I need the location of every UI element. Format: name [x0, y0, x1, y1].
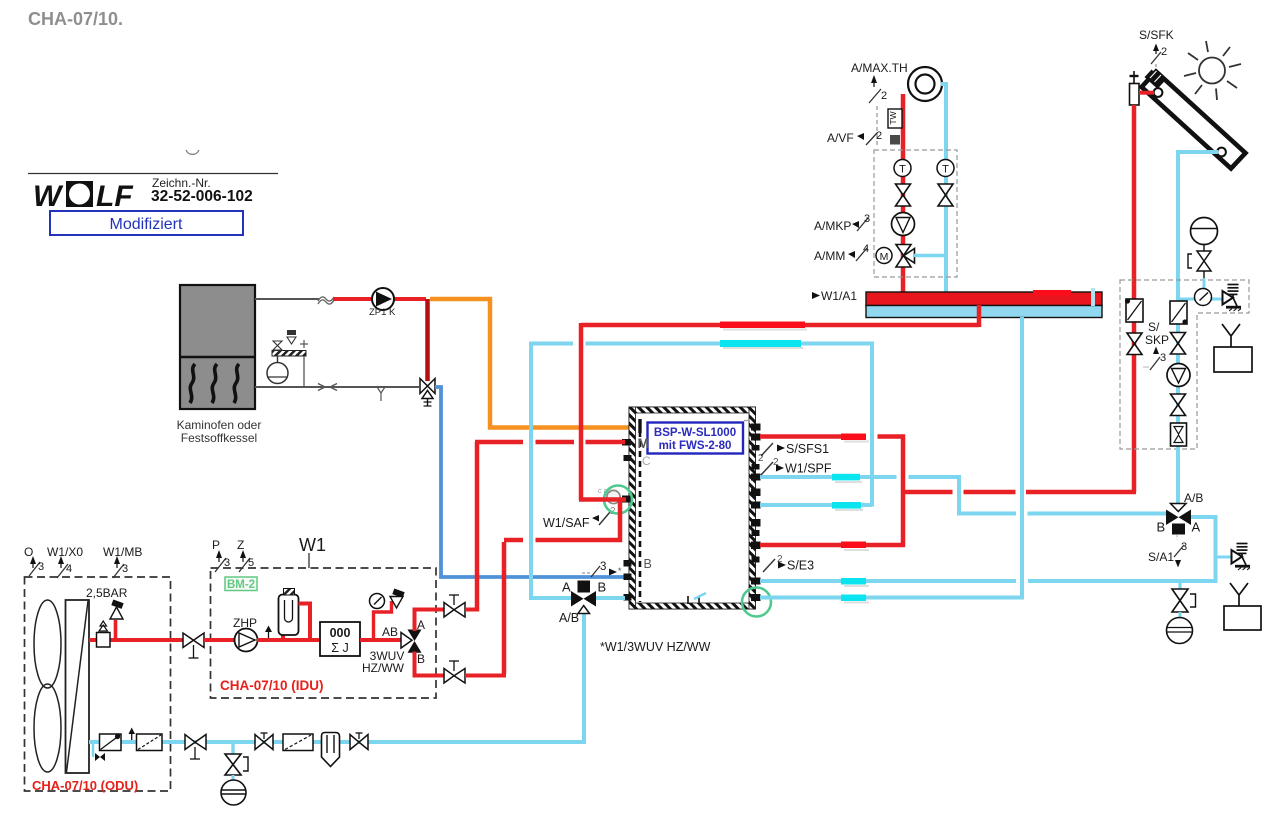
- wire red solar to tank: [902, 490, 1136, 495]
- svg-text:S/SFK: S/SFK: [1139, 28, 1174, 42]
- svg-text:ZP1 K: ZP1 K: [369, 307, 396, 318]
- manifold cyan bar: [866, 306, 1102, 318]
- wire ODU cyan return: [89, 740, 185, 744]
- dirt separator: [322, 733, 340, 767]
- svg-text:W1/SAF: W1/SAF: [543, 516, 590, 530]
- svg-text:CHA-07/10.: CHA-07/10.: [28, 9, 123, 29]
- green highlight circle SAF: [604, 486, 632, 514]
- svg-text:W1/X0: W1/X0: [47, 545, 83, 559]
- 3-way valve solar A/B: [1157, 491, 1204, 535]
- wire cyan mixer bypass: [914, 254, 946, 258]
- blow-off funnel vessel 2: [1224, 583, 1261, 630]
- valve solar return upper: [1171, 333, 1186, 355]
- wire cyan loop top: [531, 342, 872, 599]
- pipe break symbol: [318, 297, 334, 304]
- valve on return 1: [185, 735, 206, 760]
- svg-text:3: 3: [38, 561, 44, 573]
- gauge on solar return: [1178, 278, 1227, 306]
- wire red solar flow riser: [1132, 105, 1137, 492]
- wire red A1 riser: [901, 94, 906, 293]
- manifold red bar: [866, 292, 1102, 306]
- pump ZP1: [372, 288, 394, 310]
- boiler Kaminofen/Feststoffkessel: [180, 285, 255, 409]
- pump A/MKP: [892, 213, 915, 236]
- 3WUV HZ/WW valve: [362, 618, 425, 675]
- header rule: [28, 173, 278, 175]
- svg-text:A/B: A/B: [559, 611, 579, 625]
- blow-off funnel vessel 1: [1214, 324, 1252, 372]
- svg-text:A/MKP: A/MKP: [814, 219, 851, 233]
- TW limiter box: [888, 109, 902, 128]
- label W1/SAF: [543, 506, 616, 530]
- label S/SKP: [1143, 320, 1169, 370]
- BM-2 module: [225, 577, 257, 591]
- svg-text:mit FWS-2-80: mit FWS-2-80: [659, 440, 732, 452]
- wire red A out: [415, 610, 445, 632]
- svg-text:O: O: [24, 545, 33, 559]
- svg-text:CHA-07/10 (ODU): CHA-07/10 (ODU): [32, 778, 138, 793]
- check valve box with sensor dot: [100, 734, 122, 751]
- svg-text:2: 2: [1161, 46, 1167, 58]
- svg-text:HZ/WW: HZ/WW: [362, 661, 405, 675]
- red highlight dash: [723, 329, 807, 331]
- svg-text:B: B: [598, 580, 607, 595]
- wire boiler supply gray: [255, 298, 319, 300]
- tank left ports: [622, 439, 632, 601]
- expansion vessel solar: [1188, 218, 1218, 279]
- flow arrows on return: [318, 384, 325, 391]
- valve return: [938, 184, 953, 206]
- svg-text:S/A1: S/A1: [1148, 550, 1174, 564]
- check valve cartridge: [1171, 423, 1187, 446]
- svg-text:M: M: [638, 435, 650, 451]
- svg-text:32-52-006-102: 32-52-006-102: [151, 188, 253, 205]
- wire red manifold drop: [977, 305, 982, 327]
- sun: [1184, 41, 1241, 100]
- valve solar return lower: [1171, 394, 1186, 416]
- svg-text:P: P: [212, 538, 220, 552]
- red highlight dashes at tank: [844, 441, 869, 443]
- wire red WW riser link: [536, 501, 621, 540]
- air vent arrow: [129, 728, 136, 735]
- svg-text:2: 2: [876, 130, 882, 142]
- svg-text:W1/A1: W1/A1: [821, 289, 857, 303]
- svg-text:W1/MB: W1/MB: [103, 545, 142, 559]
- cyan highlight dash: [723, 347, 803, 349]
- svg-text:S/SFS1: S/SFS1: [786, 442, 829, 456]
- storage tank BSP-W-SL1000: [629, 407, 756, 609]
- wire cyan valve to tank bottom port: [595, 596, 625, 600]
- wire cyan to left AB valve: [531, 594, 572, 598]
- wire cyan tank to AB valve upper: [760, 475, 1166, 514]
- sensor label O: [24, 545, 44, 576]
- green highlight circle bottom: [742, 588, 771, 617]
- svg-text:*: *: [618, 566, 622, 576]
- wire red pump out: [257, 638, 284, 642]
- svg-text:Modifiziert: Modifiziert: [110, 216, 183, 233]
- thermometer T supply: [894, 160, 911, 177]
- tank right ports: [751, 424, 761, 602]
- valve on A line: [444, 595, 465, 617]
- label S/A1: [1148, 535, 1187, 568]
- heat exchanger: [66, 600, 90, 773]
- heat meter: [320, 622, 360, 656]
- label S/SFK: [1139, 28, 1174, 70]
- boiler mixing valve: [420, 379, 435, 407]
- wire red riser HZ supply: [475, 442, 480, 612]
- svg-text:4: 4: [863, 243, 869, 255]
- wire red drop to SAF port: [579, 323, 584, 500]
- wire orange boiler to tank: [430, 299, 630, 428]
- svg-text:3: 3: [224, 557, 230, 569]
- ODU dashed enclosure: [25, 577, 171, 791]
- solar station dashed enclosure: [1120, 280, 1249, 449]
- valve on B line: [444, 661, 465, 683]
- wire boiler return gray: [255, 386, 420, 388]
- wire boiler supply red: [333, 297, 426, 301]
- wire cyan A1 return riser: [941, 84, 946, 307]
- wire red to ZHP: [204, 638, 236, 642]
- svg-text:LF: LF: [96, 180, 133, 213]
- svg-text:C: C: [642, 454, 651, 468]
- flow indicator solar flow: [1125, 298, 1143, 322]
- svg-text:Festsoffkessel: Festsoffkessel: [181, 431, 257, 445]
- wire red collector stub: [1139, 91, 1154, 95]
- safety valve solar: [1223, 285, 1242, 312]
- svg-text:T: T: [942, 164, 949, 176]
- pale cyan stub at right end: [1091, 288, 1095, 306]
- tank bottom drain marks: [687, 596, 689, 604]
- wire cyan tank mid to AB loop: [760, 505, 1216, 581]
- svg-text:B: B: [644, 557, 652, 571]
- electric heater vessel: [279, 589, 323, 642]
- wire cyan manifold drop: [760, 317, 1022, 598]
- wire ODU red supply: [89, 638, 184, 642]
- wire dark red drop to mixing valve: [425, 299, 430, 381]
- sensor label P: [212, 538, 230, 572]
- wire red tank upper link: [760, 435, 905, 548]
- safety valve right branch: [1215, 544, 1250, 571]
- 3-way valve W1/3WUV HZ/WW: [559, 580, 606, 626]
- svg-text:T: T: [899, 164, 906, 176]
- tank inner dashed line: [639, 421, 642, 602]
- wire cyan collector return: [1178, 152, 1218, 300]
- WOLF logo: [33, 180, 133, 213]
- air vent on pipe: [265, 626, 272, 633]
- solar pump S/SKP: [1167, 364, 1190, 387]
- svg-text:SKP: SKP: [1145, 333, 1169, 347]
- flow indicator solar return: [1170, 301, 1188, 325]
- label W1/A1: [812, 289, 857, 303]
- svg-text:3: 3: [122, 563, 128, 575]
- union fitting at SAF port: [607, 490, 620, 503]
- svg-text:W: W: [33, 180, 64, 213]
- valve on return 3: [350, 735, 368, 750]
- svg-text:3: 3: [600, 561, 606, 573]
- label S/SFS1: [758, 442, 829, 464]
- decorative arc artifact: [186, 150, 199, 154]
- wire cyan station column: [1176, 296, 1180, 505]
- svg-text:A: A: [417, 618, 425, 632]
- label A/MAX.TH: [851, 61, 908, 148]
- svg-text:A/VF: A/VF: [827, 131, 854, 145]
- drain assembly with gauge: [221, 742, 248, 805]
- svg-text:A: A: [562, 580, 571, 595]
- svg-text:S/E3: S/E3: [787, 559, 814, 573]
- svg-text:Z: Z: [237, 538, 244, 552]
- svg-text:A/MM: A/MM: [814, 249, 845, 263]
- svg-text:2,5BAR: 2,5BAR: [86, 586, 128, 600]
- cyan highlight dashes right of tank: [844, 602, 869, 604]
- fan: [34, 600, 61, 688]
- filter box dashed: [137, 734, 163, 751]
- valve solar flow: [1127, 333, 1142, 355]
- svg-text:AB: AB: [382, 625, 398, 639]
- thermostat double circle: [908, 67, 942, 101]
- tank top right mark: [744, 420, 750, 422]
- svg-text:M: M: [880, 251, 889, 263]
- drain tee on return: [377, 387, 385, 393]
- air vent with cross: [1130, 71, 1140, 105]
- label W1/SPF: [761, 457, 832, 476]
- svg-text:A: A: [1192, 520, 1201, 535]
- svg-text:TW: TW: [888, 111, 898, 124]
- pump group dashed box: [874, 150, 957, 277]
- label A/MKP: [814, 213, 870, 233]
- svg-text:Σ J: Σ J: [331, 641, 348, 655]
- svg-text:000: 000: [330, 626, 351, 640]
- wire red B to riser: [465, 674, 506, 678]
- drain with vessel bottom right: [1167, 581, 1196, 644]
- wire red B out: [415, 652, 445, 676]
- svg-text:B: B: [1157, 520, 1166, 535]
- sensor label W1/X0: [47, 545, 83, 578]
- mixer A/MM: [876, 245, 915, 268]
- svg-text:W1: W1: [299, 535, 326, 555]
- safety valve 2,5bar: [110, 599, 124, 640]
- wire cyan heat pump return main: [185, 614, 584, 743]
- purge box: [97, 633, 111, 648]
- sensor marker 3 at tank left: [582, 561, 622, 577]
- svg-text:3: 3: [1160, 352, 1166, 364]
- svg-text:CHA-07/10 (IDU): CHA-07/10 (IDU): [220, 678, 324, 693]
- valve supply: [896, 184, 911, 206]
- svg-text:*W1/3WUV HZ/WW: *W1/3WUV HZ/WW: [600, 640, 711, 654]
- shutoff valve before IDU: [183, 633, 204, 658]
- svg-text:3: 3: [864, 213, 870, 225]
- svg-text:BSP-W-SL1000: BSP-W-SL1000: [654, 427, 736, 439]
- wire blue boiler return to tank: [435, 387, 628, 577]
- label S/E3: [763, 554, 814, 573]
- Modifiziert box: [50, 211, 243, 235]
- svg-text:BM-2: BM-2: [227, 579, 255, 591]
- svg-text:S/: S/: [1148, 320, 1160, 334]
- expansion vessel group: [267, 330, 308, 387]
- IDU dashed enclosure: [211, 568, 437, 698]
- label A/MM: [814, 243, 869, 263]
- valve on return 2: [255, 735, 273, 750]
- wire red A to riser: [465, 608, 479, 612]
- wire red meter to 3WUV: [360, 638, 404, 642]
- red highlight dash on bar: [1033, 290, 1071, 296]
- pressure gauge branch: [370, 588, 405, 640]
- solar collector S/SFK: [1142, 70, 1246, 169]
- label A/VF: [827, 130, 900, 145]
- svg-text:5: 5: [248, 557, 254, 569]
- thermometer T return: [937, 160, 954, 177]
- filter on return: [283, 734, 313, 751]
- cyan highlight dashes: [835, 481, 862, 483]
- wire red to tank port M (with crossing gaps): [475, 440, 625, 445]
- wire red manifold feed horizontal: [581, 323, 979, 328]
- svg-text:W1/SPF: W1/SPF: [785, 462, 832, 476]
- svg-text:B: B: [417, 652, 425, 666]
- tank nameplate box: [648, 423, 744, 454]
- svg-text:4: 4: [66, 563, 72, 575]
- sensor label W1/MB: [103, 545, 142, 578]
- small drain bowtie: [95, 753, 105, 761]
- sensor label Z: [237, 538, 254, 572]
- svg-text:2: 2: [881, 90, 887, 102]
- svg-text:Kaminofen oder: Kaminofen oder: [177, 418, 262, 432]
- svg-text:A/MAX.TH: A/MAX.TH: [851, 61, 908, 75]
